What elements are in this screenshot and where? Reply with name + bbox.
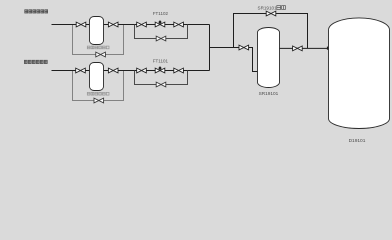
gate valve G1 [137,22,147,27]
mid line to vessel [210,48,259,72]
filter vessel 2 label (gray marks) [87,92,109,95]
vessel SR19101 [258,28,280,88]
SR outlet line [280,47,329,49]
main line 2 [52,70,210,72]
filter bypass valve 1 [96,52,106,57]
junction dot at tank [327,47,330,50]
filter vessel 1 label (gray marks) [87,46,109,49]
gate valve G2 [174,22,184,27]
label SR19101旁路 [258,5,286,10]
svg-text:FT1102: FT1102 [153,11,169,16]
inlet label 汽油自催化来 (glyph marks) [25,10,48,13]
filter vessel 1 [90,17,104,45]
FT bypass valve 2 [156,82,166,87]
junction vertical [209,25,211,71]
control valve FT1102 [155,20,165,27]
SR bypass valve [266,11,276,16]
filter bypass valve 2 [94,98,104,103]
outlet valve V2 [108,22,118,27]
FT bypass loop 2 [135,71,188,85]
SR bypass loop [234,14,308,49]
control valve FT1101 [155,66,165,73]
filter vessel 2 [90,63,104,91]
main line 1 [52,24,210,26]
outlet valve V4 [108,68,118,73]
inlet valve V1 [76,22,86,27]
svg-text:D19101: D19101 [349,138,366,144]
inlet valve V3 [76,68,86,73]
svg-text:SR19101: SR19101 [258,5,278,10]
svg-text:SR19101: SR19101 [259,91,279,96]
FT bypass loop 1 [135,25,188,39]
SR outlet valve [293,46,303,51]
inlet label 汽油自罐区来 (glyph marks) [24,60,47,63]
SR inlet valve [239,45,249,50]
svg-text:FT1101: FT1101 [153,58,169,63]
FT bypass valve 1 [156,36,166,41]
filter bypass loop 1 [73,25,124,55]
filter bypass loop 2 [73,71,124,101]
gate valve G3 [137,68,147,73]
gate valve G4 [174,68,184,73]
